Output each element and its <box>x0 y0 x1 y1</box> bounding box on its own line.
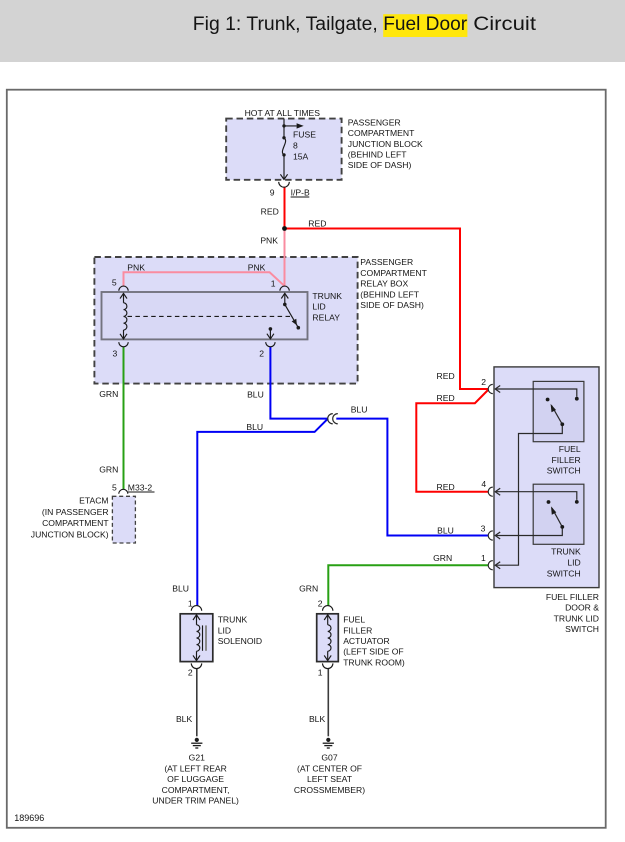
svg-text:PASSENGER: PASSENGER <box>360 257 413 267</box>
svg-text:RED: RED <box>308 219 326 229</box>
svg-text:FUEL FILLER: FUEL FILLER <box>546 592 599 602</box>
svg-text:FUEL: FUEL <box>343 615 365 625</box>
svg-text:FILLER: FILLER <box>552 455 581 465</box>
svg-text:SIDE OF DASH): SIDE OF DASH) <box>348 160 412 170</box>
svg-text:PASSENGER: PASSENGER <box>348 117 401 127</box>
svg-text:SOLENOID: SOLENOID <box>218 636 262 646</box>
svg-text:GRN: GRN <box>299 583 318 593</box>
svg-text:1: 1 <box>318 668 323 678</box>
svg-text:2: 2 <box>481 377 486 387</box>
svg-text:COMPARTMENT,: COMPARTMENT, <box>162 785 230 795</box>
svg-text:ETACM: ETACM <box>79 496 108 506</box>
svg-text:(BEHIND LEFT: (BEHIND LEFT <box>348 150 407 160</box>
svg-text:GRN: GRN <box>99 465 118 475</box>
svg-text:RELAY BOX: RELAY BOX <box>360 279 408 289</box>
svg-text:BLK: BLK <box>309 714 326 724</box>
svg-text:GRN: GRN <box>433 553 452 563</box>
svg-text:BLU: BLU <box>437 525 454 535</box>
svg-text:189696: 189696 <box>14 813 44 823</box>
svg-text:LID: LID <box>312 302 325 312</box>
svg-text:(IN PASSENGER: (IN PASSENGER <box>42 507 109 517</box>
svg-text:SIDE OF DASH): SIDE OF DASH) <box>360 300 424 310</box>
svg-text:CROSSMEMBER): CROSSMEMBER) <box>294 785 365 795</box>
svg-text:LEFT SEAT: LEFT SEAT <box>307 774 353 784</box>
svg-text:TRUNK: TRUNK <box>551 547 581 557</box>
svg-text:G07: G07 <box>321 753 337 763</box>
svg-text:RELAY: RELAY <box>312 312 340 322</box>
svg-text:(BEHIND LEFT: (BEHIND LEFT <box>360 289 419 299</box>
svg-text:G21: G21 <box>189 753 205 763</box>
svg-text:HOT AT ALL TIMES: HOT AT ALL TIMES <box>245 108 321 118</box>
svg-text:RED: RED <box>437 482 455 492</box>
svg-text:TRUNK: TRUNK <box>312 291 342 301</box>
svg-text:Fig 1: Trunk, Tailgate, Fuel D: Fig 1: Trunk, Tailgate, Fuel Door Circui… <box>193 13 537 35</box>
svg-text:8: 8 <box>293 141 298 151</box>
svg-text:SWITCH: SWITCH <box>547 568 581 578</box>
svg-text:(AT LEFT REAR: (AT LEFT REAR <box>164 763 227 773</box>
svg-text:5: 5 <box>112 482 117 492</box>
svg-text:BLU: BLU <box>351 404 368 414</box>
svg-text:PNK: PNK <box>127 263 145 273</box>
svg-text:2: 2 <box>188 668 193 678</box>
svg-text:JUNCTION BLOCK: JUNCTION BLOCK <box>348 139 423 149</box>
svg-text:4: 4 <box>481 479 486 489</box>
svg-text:OF LUGGAGE: OF LUGGAGE <box>167 774 224 784</box>
svg-text:15A: 15A <box>293 152 309 162</box>
svg-text:BLU: BLU <box>172 583 189 593</box>
svg-text:GRN: GRN <box>99 389 118 399</box>
svg-text:TRUNK: TRUNK <box>218 615 248 625</box>
svg-text:I/P-B: I/P-B <box>291 187 310 197</box>
svg-text:LID: LID <box>218 625 231 635</box>
svg-text:(LEFT SIDE OF: (LEFT SIDE OF <box>343 647 403 657</box>
svg-text:3: 3 <box>113 349 118 359</box>
svg-text:COMPARTMENT: COMPARTMENT <box>42 518 109 528</box>
svg-text:COMPARTMENT: COMPARTMENT <box>348 128 415 138</box>
svg-text:FUSE: FUSE <box>293 130 316 140</box>
svg-text:UNDER TRIM PANEL): UNDER TRIM PANEL) <box>152 796 239 806</box>
svg-text:TRUNK LID: TRUNK LID <box>554 613 599 623</box>
svg-text:RED: RED <box>261 206 279 216</box>
svg-text:FUEL: FUEL <box>559 444 581 454</box>
svg-text:DOOR &: DOOR & <box>565 603 599 613</box>
svg-text:9: 9 <box>270 187 275 197</box>
svg-text:1: 1 <box>481 553 486 563</box>
svg-text:2: 2 <box>259 349 264 359</box>
svg-text:SWITCH: SWITCH <box>547 466 581 476</box>
svg-text:LID: LID <box>567 557 580 567</box>
svg-text:PNK: PNK <box>248 263 266 273</box>
svg-text:TRUNK ROOM): TRUNK ROOM) <box>343 657 405 667</box>
svg-text:RED: RED <box>437 371 455 381</box>
svg-text:1: 1 <box>188 598 193 608</box>
svg-text:M33-2: M33-2 <box>128 482 153 492</box>
svg-text:(AT CENTER OF: (AT CENTER OF <box>297 763 362 773</box>
svg-text:2: 2 <box>318 598 323 608</box>
svg-text:BLU: BLU <box>247 389 264 399</box>
svg-text:ACTUATOR: ACTUATOR <box>343 636 389 646</box>
svg-text:SWITCH: SWITCH <box>565 624 599 634</box>
svg-text:JUNCTION BLOCK): JUNCTION BLOCK) <box>31 530 109 540</box>
svg-text:5: 5 <box>112 278 117 288</box>
svg-text:BLU: BLU <box>246 422 263 432</box>
svg-text:3: 3 <box>481 523 486 533</box>
svg-text:FILLER: FILLER <box>343 625 372 635</box>
svg-text:RED: RED <box>437 393 455 403</box>
svg-text:BLK: BLK <box>176 714 193 724</box>
svg-text:1: 1 <box>271 279 276 289</box>
svg-text:COMPARTMENT: COMPARTMENT <box>360 268 427 278</box>
svg-text:PNK: PNK <box>260 236 278 246</box>
